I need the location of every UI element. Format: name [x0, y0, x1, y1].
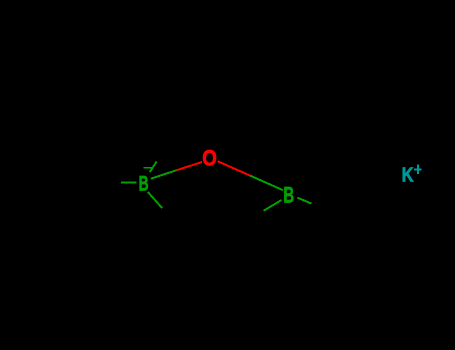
bond B2-CH3 (right stub) — [297, 198, 311, 204]
svg-text:B: B — [283, 182, 294, 207]
bond O-B2 (red half) — [218, 161, 251, 176]
bond CH3-B1 (left methyl, horizontal) — [121, 182, 137, 184]
atom B2 (right boron) — [283, 182, 294, 207]
svg-text:O: O — [202, 145, 217, 170]
svg-text:K: K — [402, 164, 414, 187]
cation K+ — [402, 164, 422, 187]
atom B1 (left boron) — [139, 172, 149, 195]
atom O (bridging oxygen) — [202, 145, 217, 170]
bond B1-O (red half) — [176, 162, 202, 170]
bond B2-CH2 (lower-left stub) — [264, 200, 282, 211]
bond O-B2 (green half) — [250, 176, 283, 191]
bond B1-O (green half) — [151, 170, 177, 178]
svg-text:B: B — [139, 172, 149, 195]
bond B1-CH3 (lower-right stub) — [148, 192, 162, 208]
charge minus on B1 — [143, 167, 151, 169]
bond B1-CH3 (upper-right stub) — [150, 162, 157, 173]
